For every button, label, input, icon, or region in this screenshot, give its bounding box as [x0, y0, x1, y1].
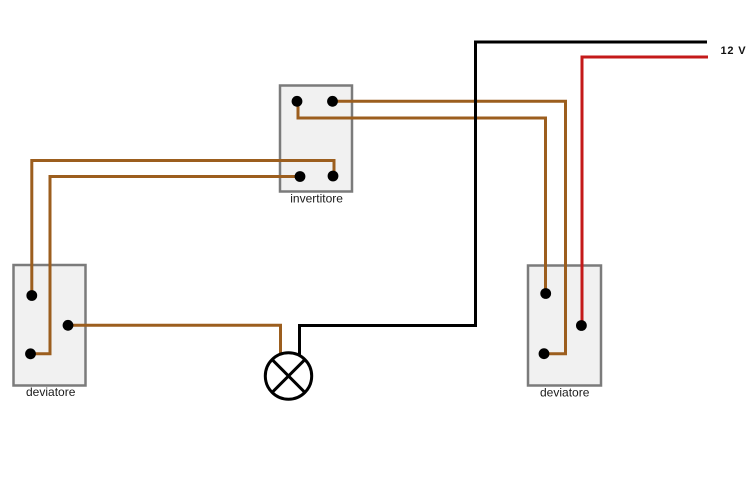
- terminal dot left deviatore top: [26, 290, 37, 301]
- wire brown: left deviatore bottom-left to invertitore bottom-left: [31, 177, 301, 354]
- switch box U1 invertitore: [280, 86, 352, 192]
- terminal dot left deviatore bottom: [25, 348, 36, 359]
- terminal dot invertitore top-right: [327, 96, 338, 107]
- wire red: 12V positive feed to right deviatore middle: [582, 57, 708, 326]
- wire black: 12V negative feed to lamp: [300, 42, 708, 356]
- terminal dot invertitore bottom-left: [295, 171, 306, 182]
- terminal dot right deviatore bottom: [539, 348, 550, 359]
- svg-text:12 V: 12 V: [721, 45, 747, 57]
- wire brown: invertitore top-right to right deviatore bottom-left: [333, 101, 566, 353]
- switch box S1 deviatore left: [14, 265, 86, 386]
- switch box S2 deviatore right: [528, 266, 601, 386]
- wire brown: left deviatore top-left to invertitore bottom-right: [32, 161, 334, 296]
- svg-text:invertitore: invertitore: [290, 192, 343, 206]
- terminal dot right deviatore top: [540, 288, 551, 299]
- terminal dot invertitore bottom-right: [328, 171, 339, 182]
- wire brown: invertitore top-left to right deviatore top-left: [298, 101, 546, 294]
- wire brown: left deviatore middle to lamp: [68, 325, 281, 356]
- terminal dot invertitore top-left: [292, 96, 303, 107]
- svg-text:deviatore: deviatore: [540, 386, 590, 400]
- terminal dot left deviatore middle: [63, 320, 74, 331]
- lamp L1: [265, 353, 311, 399]
- terminal dot right deviatore middle: [576, 320, 587, 331]
- svg-text:deviatore: deviatore: [26, 385, 76, 399]
